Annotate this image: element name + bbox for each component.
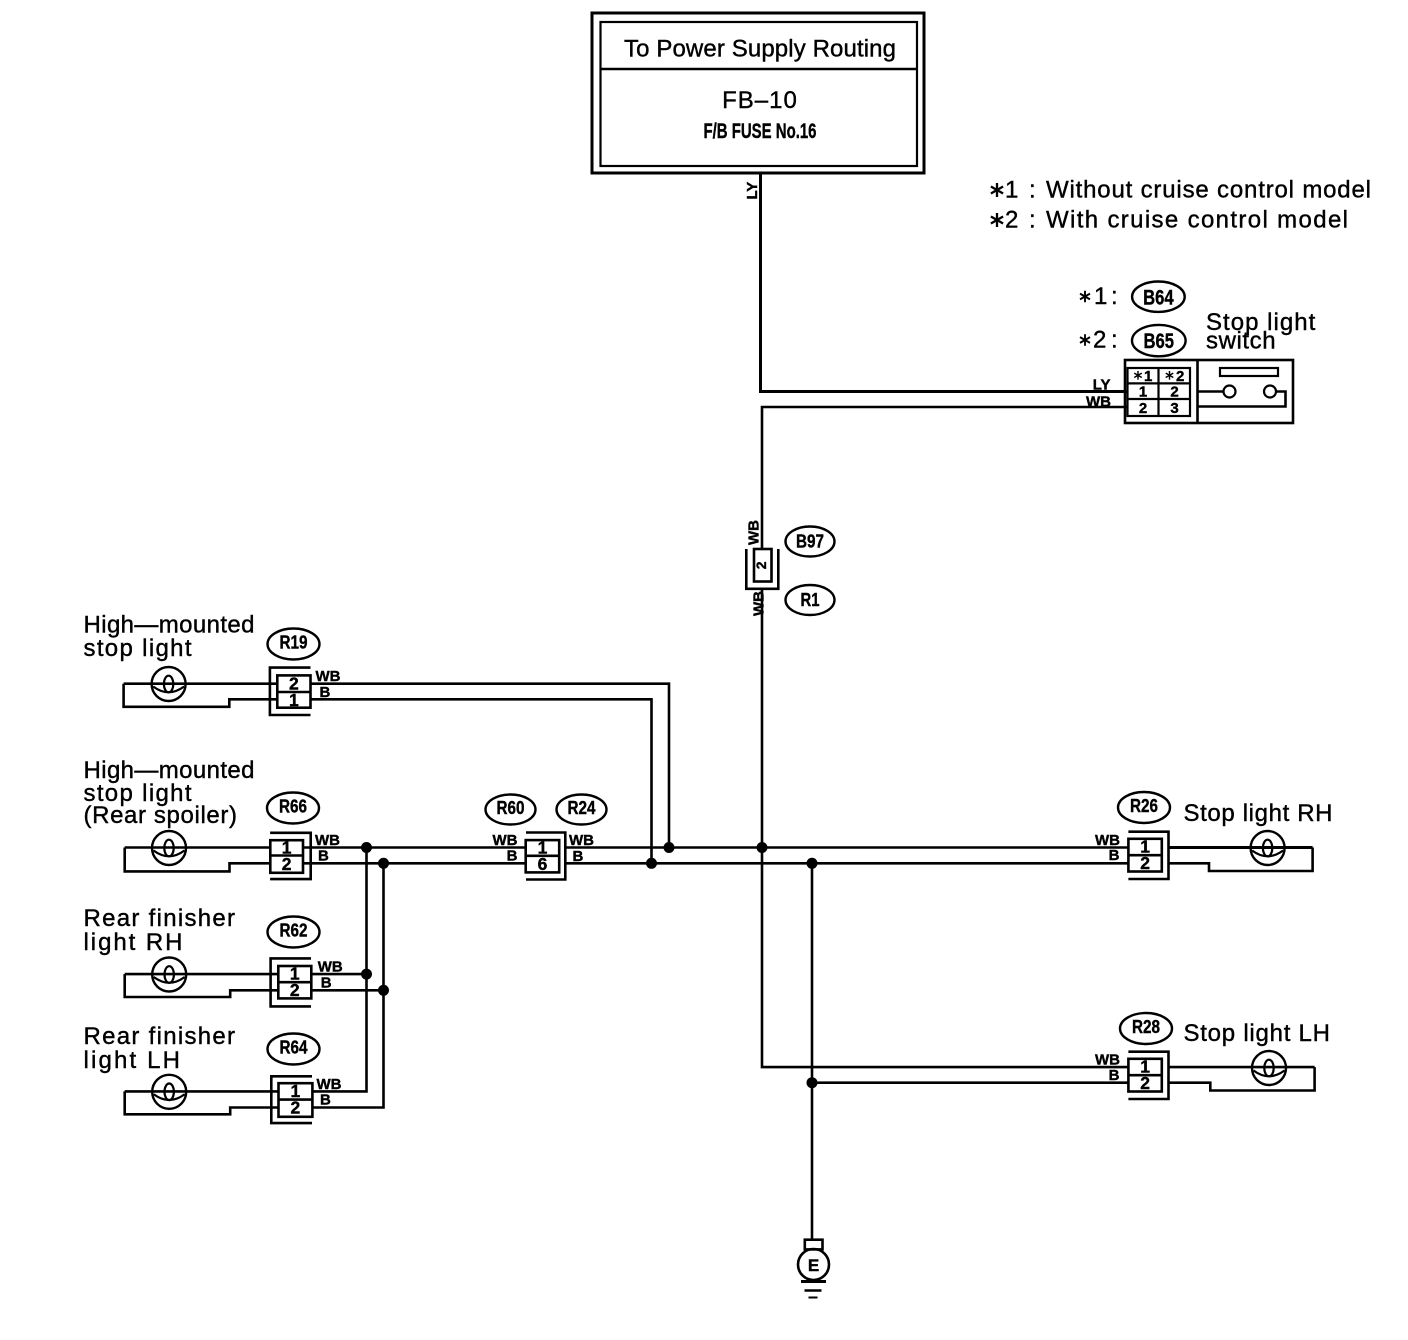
wire WB from stop light switch left and down to connector B97 bbox=[762, 407, 1127, 549]
svg-text:1: 1 bbox=[1094, 283, 1107, 310]
connector R19 bracket bbox=[270, 668, 311, 715]
high-mounted stop light (rear spoiler) bulb bbox=[152, 831, 186, 865]
svg-text:R19: R19 bbox=[280, 633, 308, 653]
wire WB from R19 right then down to WB rail bbox=[311, 684, 670, 848]
svg-text:(Rear spoiler): (Rear spoiler) bbox=[84, 802, 238, 829]
wire label B at R66 bbox=[318, 848, 329, 865]
junction dot R19 B to rail bbox=[646, 858, 657, 869]
svg-text:B97: B97 bbox=[796, 532, 824, 552]
ellipse R24 bbox=[557, 795, 607, 825]
wire label WB at R26 bbox=[1095, 832, 1120, 849]
ground symbol bars bbox=[801, 1282, 826, 1298]
wire B from R19 right then down to B rail bbox=[311, 699, 652, 863]
grid cell pin 2 right bbox=[1170, 384, 1178, 401]
svg-text:2: 2 bbox=[1176, 368, 1184, 385]
svg-text:R1: R1 bbox=[801, 590, 820, 610]
wire B branch down to rear finisher lights bbox=[312, 863, 383, 1107]
label *2 : ellipse B65 bbox=[1080, 325, 1186, 356]
svg-text:2: 2 bbox=[1139, 400, 1147, 417]
label FB-10 bbox=[722, 87, 798, 114]
svg-text:WB: WB bbox=[1095, 1052, 1120, 1069]
junction dot ground branch at B rail bbox=[807, 858, 818, 869]
svg-text:3: 3 bbox=[1170, 400, 1178, 417]
svg-text:B: B bbox=[318, 848, 329, 865]
wire label WB at R64 bbox=[317, 1076, 342, 1093]
ellipse R66 bbox=[267, 793, 319, 824]
wire WB from B97 down through WB rail junction, then to stop light LH connector R28 bbox=[762, 589, 1128, 1067]
junction dot rear finisher WB branch bbox=[361, 842, 372, 853]
junction dot R62 WB bbox=[361, 969, 372, 980]
svg-text:FB–10: FB–10 bbox=[722, 87, 798, 114]
svg-text:Without cruise control model: Without cruise control model bbox=[1046, 177, 1371, 204]
svg-text:1: 1 bbox=[1144, 368, 1152, 385]
svg-text:6: 6 bbox=[538, 854, 548, 874]
svg-text:B: B bbox=[321, 975, 332, 992]
power supply box FB-10 outer border bbox=[592, 13, 924, 173]
wire label B at R26 bbox=[1109, 847, 1120, 864]
junction dot R19 WB to rail bbox=[664, 842, 675, 853]
wire label WB at R62 bbox=[318, 959, 343, 976]
ellipse R60 bbox=[486, 795, 536, 825]
wire label B at R28 bbox=[1109, 1067, 1120, 1084]
switch wire from right contact to WB pin bbox=[1198, 392, 1286, 407]
connector R26 pin box bbox=[1128, 837, 1161, 874]
svg-text:R26: R26 bbox=[1130, 796, 1158, 816]
switch contact bar bbox=[1220, 368, 1278, 376]
label Rear finisher light RH bbox=[84, 905, 236, 956]
label *1 : ellipse B64 bbox=[1080, 282, 1185, 312]
wire B from R28 to ground branch bbox=[812, 1081, 1128, 1084]
ellipse B97 bbox=[786, 527, 835, 557]
svg-text:R24: R24 bbox=[568, 798, 596, 818]
wire R62 B to branch bbox=[311, 989, 383, 992]
svg-text:2: 2 bbox=[1140, 853, 1150, 873]
svg-text:Rear finisher: Rear finisher bbox=[84, 1023, 236, 1050]
wire label WB above B97 (rotated) bbox=[746, 520, 763, 545]
legend line *2 with cruise control bbox=[991, 207, 1348, 234]
ellipse R19 bbox=[268, 629, 320, 660]
connector R64 bracket bbox=[271, 1076, 312, 1123]
wire label B right of R24 bbox=[573, 848, 584, 865]
svg-text:2: 2 bbox=[282, 854, 292, 874]
connector R66 bracket bbox=[270, 833, 311, 879]
wire label B at R62 bbox=[321, 975, 332, 992]
label F/B FUSE No.16 bbox=[704, 120, 817, 143]
svg-text:F/B FUSE No.16: F/B FUSE No.16 bbox=[704, 120, 817, 143]
connector R60/R24 pin box bbox=[526, 838, 560, 875]
label Stop light switch bbox=[1206, 309, 1316, 355]
label Rear finisher light LH bbox=[84, 1023, 236, 1074]
svg-text:B: B bbox=[1109, 847, 1120, 864]
wire R62 WB to branch bbox=[311, 973, 366, 976]
connector R66 pin box bbox=[270, 838, 303, 875]
connector R28 pin box bbox=[1128, 1057, 1161, 1094]
svg-text:1: 1 bbox=[289, 690, 299, 710]
WB rail left segment bbox=[303, 846, 526, 849]
ellipse R64 bbox=[268, 1034, 320, 1065]
svg-text:switch: switch bbox=[1206, 327, 1276, 354]
ground connector rect bbox=[805, 1240, 823, 1250]
svg-text:light RH: light RH bbox=[84, 929, 183, 956]
wire label WB below B97 (rotated) bbox=[751, 591, 768, 616]
connector R62 pin box bbox=[278, 964, 311, 1001]
svg-text:R28: R28 bbox=[1132, 1017, 1160, 1037]
wire label WB at R66 bbox=[315, 832, 340, 849]
stop light switch outer box bbox=[1125, 360, 1293, 423]
junction dot rear finisher B branch bbox=[378, 858, 389, 869]
legend line *1 without cruise control bbox=[991, 177, 1371, 204]
grid cell pin 1 bbox=[1139, 384, 1147, 401]
switch right contact bbox=[1264, 386, 1276, 398]
svg-text:To Power Supply Routing: To Power Supply Routing bbox=[624, 36, 896, 63]
svg-text:1: 1 bbox=[1139, 384, 1147, 401]
wire LY feed from fuse box down and right to stop light switch bbox=[761, 173, 1128, 392]
connector R19 pin box bbox=[277, 674, 310, 710]
svg-text:2: 2 bbox=[1170, 384, 1178, 401]
label To Power Supply Routing bbox=[624, 36, 896, 63]
wire label WB left of R60 bbox=[493, 832, 518, 849]
svg-text:WB: WB bbox=[317, 1076, 342, 1093]
wire label B at R19 bbox=[320, 684, 331, 701]
svg-text:WB: WB bbox=[318, 959, 343, 976]
connector R60/R24 bracket bbox=[526, 833, 565, 880]
svg-text::: : bbox=[1111, 327, 1118, 354]
svg-text::: : bbox=[1029, 177, 1036, 204]
wire label B left of R60 bbox=[507, 848, 518, 865]
stop light LH housing bbox=[1169, 1067, 1315, 1090]
svg-text:light LH: light LH bbox=[84, 1047, 181, 1074]
power supply box FB-10 inner border bbox=[601, 22, 918, 166]
svg-text:WB: WB bbox=[746, 520, 763, 545]
svg-text:R64: R64 bbox=[280, 1038, 308, 1058]
label Stop light LH bbox=[1184, 1020, 1331, 1047]
wire label LY (rotated) bbox=[744, 182, 761, 200]
wire ground branch from B rail down to ground bbox=[811, 863, 814, 1239]
junction dot R62 B bbox=[378, 985, 389, 996]
svg-text:WB: WB bbox=[751, 591, 768, 616]
label High-mounted stop light (Rear spoiler) bbox=[84, 757, 255, 829]
svg-text:B: B bbox=[320, 1092, 331, 1109]
stop light RH housing bbox=[1169, 848, 1313, 872]
svg-text:1: 1 bbox=[1005, 177, 1018, 204]
svg-text:2: 2 bbox=[1093, 327, 1106, 354]
svg-text:WB: WB bbox=[493, 832, 518, 849]
rear finisher light RH bulb bbox=[152, 958, 186, 992]
B rail left segment bbox=[303, 862, 526, 865]
label Stop light RH bbox=[1184, 800, 1333, 827]
label High-mounted stop light bbox=[84, 612, 255, 662]
svg-text:R66: R66 bbox=[279, 797, 307, 817]
B rail right segment bbox=[565, 862, 1128, 865]
svg-text:B: B bbox=[573, 848, 584, 865]
ellipse R28 bbox=[1120, 1013, 1172, 1044]
svg-text:WB: WB bbox=[569, 832, 594, 849]
grid cell pin 2 bottom bbox=[1139, 400, 1147, 417]
ground circle E bbox=[798, 1249, 829, 1280]
svg-text:R62: R62 bbox=[280, 921, 308, 941]
svg-text:B65: B65 bbox=[1144, 330, 1175, 353]
stop light switch connector grid B64/B65 bbox=[1128, 368, 1191, 416]
rear finisher light RH housing bbox=[125, 974, 279, 997]
stop light RH bulb bbox=[1251, 831, 1285, 865]
svg-text::: : bbox=[1111, 283, 1118, 310]
svg-text:2: 2 bbox=[753, 561, 769, 569]
high-mounted stop light housing bbox=[124, 684, 278, 707]
wire label WB at R28 bbox=[1095, 1052, 1120, 1069]
WB rail right segment bbox=[565, 846, 1128, 849]
svg-text:LY: LY bbox=[1093, 377, 1111, 394]
switch left contact bbox=[1224, 386, 1236, 398]
svg-text:R60: R60 bbox=[497, 798, 525, 818]
wire label B at R64 bbox=[320, 1092, 331, 1109]
rear finisher light LH bulb bbox=[152, 1075, 186, 1109]
svg-text:2: 2 bbox=[1140, 1073, 1150, 1093]
wire label WB at R19 bbox=[316, 668, 341, 685]
svg-text:Stop light LH: Stop light LH bbox=[1184, 1020, 1331, 1047]
svg-text:Rear finisher: Rear finisher bbox=[84, 905, 236, 932]
junction dot switch WB line at rail bbox=[757, 842, 768, 853]
svg-text:Stop light RH: Stop light RH bbox=[1184, 800, 1333, 827]
switch wire to left contact bbox=[1198, 390, 1224, 393]
svg-text:B: B bbox=[507, 848, 518, 865]
svg-text:E: E bbox=[808, 1256, 819, 1275]
wire label WB right of R24 bbox=[569, 832, 594, 849]
ellipse R1 bbox=[786, 585, 835, 615]
svg-text:With cruise control model: With cruise control model bbox=[1046, 207, 1348, 234]
svg-text:2: 2 bbox=[290, 980, 300, 1000]
svg-text:2: 2 bbox=[291, 1098, 301, 1118]
grid cell pin 3 bbox=[1170, 400, 1178, 417]
connector R64 pin box bbox=[279, 1081, 313, 1118]
svg-text:2: 2 bbox=[1005, 207, 1018, 234]
wire WB branch down to rear finisher lights bbox=[312, 848, 366, 1092]
wire label LY at switch bbox=[1093, 377, 1111, 394]
grid cell *2 bbox=[1166, 368, 1185, 385]
junction dot R28 B at ground branch bbox=[807, 1077, 818, 1088]
high-mounted stop light bulb bbox=[152, 667, 186, 701]
svg-text:B64: B64 bbox=[1143, 286, 1174, 309]
ellipse R62 bbox=[268, 917, 320, 948]
svg-text:WB: WB bbox=[1086, 394, 1111, 411]
ellipse R26 bbox=[1118, 792, 1170, 823]
wire label WB at switch bbox=[1086, 394, 1111, 411]
grid cell *1 bbox=[1134, 368, 1152, 385]
connector B97/R1 inline box bbox=[746, 549, 778, 589]
rear finisher light LH housing bbox=[125, 1091, 279, 1114]
connector R28 bracket bbox=[1128, 1052, 1168, 1099]
svg-text:stop light: stop light bbox=[84, 635, 192, 662]
svg-text:LY: LY bbox=[744, 182, 761, 200]
svg-text::: : bbox=[1029, 207, 1036, 234]
connector R26 bracket bbox=[1128, 832, 1168, 879]
high-mounted stop light (rear spoiler) housing bbox=[125, 848, 271, 872]
connector R62 bracket bbox=[271, 958, 311, 1006]
stop light LH bulb bbox=[1252, 1051, 1286, 1085]
